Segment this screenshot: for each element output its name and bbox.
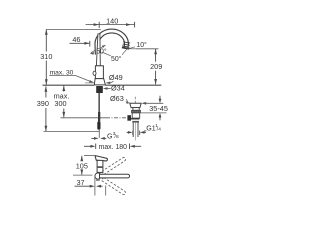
body column <box>95 66 103 79</box>
dim 35-45 arrows <box>159 96 162 120</box>
drain locknut <box>132 113 140 118</box>
dim 140 line <box>86 22 135 28</box>
leader max.30 <box>49 76 94 83</box>
base flange <box>94 79 105 85</box>
dim 37 <box>75 185 103 188</box>
svg-text:10°: 10° <box>136 41 147 49</box>
drain upper body <box>133 108 139 111</box>
dim max.300 vertical <box>62 86 65 118</box>
leaders 10 deg <box>128 47 136 49</box>
svg-text:37: 37 <box>76 178 84 187</box>
leader Ø49 <box>106 81 114 84</box>
svg-text:300: 300 <box>54 99 66 108</box>
svg-text:4: 4 <box>158 126 161 132</box>
dim 46 line <box>70 41 90 47</box>
body side knob <box>93 71 96 75</box>
svg-text:Ø34: Ø34 <box>111 84 125 93</box>
dim 209 <box>136 48 159 50</box>
bottom view spout dashed down <box>102 177 127 195</box>
ext line 390 bottom <box>44 130 100 132</box>
tailpipe centerline <box>135 123 137 141</box>
lever <box>96 34 100 66</box>
ext line 310 top (spout top level) <box>46 28 101 30</box>
G3/8 pointer arrows <box>91 137 106 140</box>
svg-text:8: 8 <box>116 134 119 140</box>
spout tube <box>97 31 127 54</box>
svg-text:Ø49: Ø49 <box>109 73 123 82</box>
spout outlet aerator <box>122 42 130 49</box>
supply pipe <box>98 93 100 112</box>
leaders 50 upper <box>91 45 106 53</box>
bottom view body ring <box>97 166 103 168</box>
deck top secondary line <box>85 82 94 84</box>
drain nut bottom band <box>131 118 140 119</box>
pop-up rod lower end <box>98 130 100 138</box>
svg-text:Ø63: Ø63 <box>110 94 124 103</box>
drain centerline <box>134 97 136 103</box>
svg-text:390: 390 <box>37 99 49 108</box>
bottom view ball joint <box>95 173 101 179</box>
svg-text:105: 105 <box>76 161 88 170</box>
svg-text:209: 209 <box>150 62 162 71</box>
dim 35-45 top ext <box>142 102 164 105</box>
drain tailpipe <box>133 123 138 137</box>
leader Ø34 <box>103 87 111 90</box>
svg-text:max. 180: max. 180 <box>99 144 128 151</box>
ext lines 37 <box>95 178 106 196</box>
drain connector band <box>132 121 139 123</box>
shank below deck <box>96 86 103 93</box>
dim 105 <box>80 156 83 175</box>
drain knob <box>127 115 131 121</box>
ext line max300 bottom / pop-up rod line <box>61 117 107 119</box>
dim 35-45 bottom ext <box>141 112 167 114</box>
bottom view spout dashed up <box>102 157 127 175</box>
ext lines 105 <box>73 156 96 176</box>
bottom view spout solid <box>100 174 130 178</box>
supply nipple G3/8 <box>97 122 100 130</box>
dim 390 vertical <box>45 86 48 131</box>
svg-text:50°: 50° <box>96 48 107 56</box>
G1 1/4 pointer arrows and ticks <box>127 131 146 135</box>
svg-text:G: G <box>107 132 113 140</box>
bottom view body <box>97 160 103 172</box>
svg-text:35-45: 35-45 <box>149 104 168 113</box>
svg-text:46: 46 <box>72 35 80 44</box>
leaders 50 lower <box>102 48 128 56</box>
leader Ø63 <box>126 99 130 104</box>
bottom view ball base mark <box>96 179 100 181</box>
deck main line <box>43 84 162 86</box>
drain flange <box>130 103 141 107</box>
svg-text:50°: 50° <box>111 55 122 63</box>
dim 310 vertical <box>45 29 48 84</box>
dim max.180 <box>84 144 141 150</box>
svg-text:310: 310 <box>40 52 52 61</box>
drain collar ring <box>132 110 141 113</box>
bottom view lever <box>95 156 107 161</box>
